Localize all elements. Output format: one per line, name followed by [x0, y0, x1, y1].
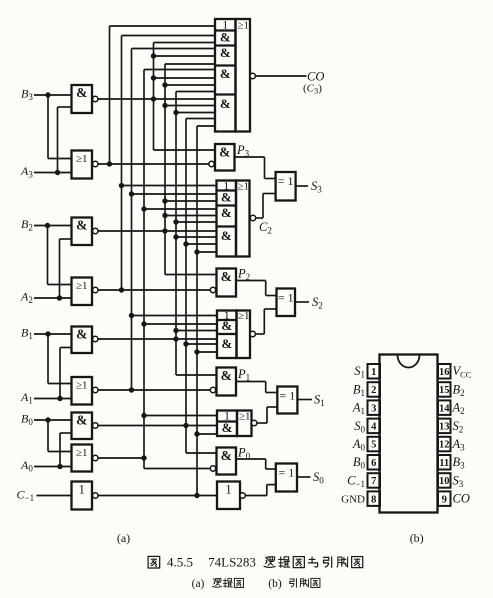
wire P2 output to XOR [236, 281, 277, 296]
svg-text:13: 13 [439, 422, 450, 433]
wire output S0 [297, 476, 311, 478]
svg-text:≥1: ≥1 [237, 20, 249, 32]
NAND gate P2 [210, 269, 236, 297]
pin 6 box [368, 455, 381, 470]
svg-text:3: 3 [371, 403, 376, 414]
caption line 2: (a) 逻辑图 (b) 引脚图 [192, 578, 320, 590]
wire B-input to NOR + junction [45, 331, 71, 383]
wire B2-NAND output (G2') to AOI2 [98, 230, 217, 232]
svg-text:(b): (b) [268, 578, 282, 590]
svg-text:GND: GND [341, 494, 365, 506]
NAND gate (B0·A0)' [72, 413, 99, 440]
svg-text:CO: CO [307, 70, 324, 84]
pin 10 box [438, 473, 451, 488]
input A2 wire [34, 297, 72, 299]
wire output S3 [296, 185, 308, 187]
NAND gate (B3·A3)' [72, 85, 99, 113]
svg-text:≥1: ≥1 [76, 280, 88, 292]
wire C-1 inverter output to second stage [98, 495, 217, 497]
XOR gate S3 [276, 172, 296, 201]
wire A-input to NAND + junction [55, 107, 72, 175]
caption line 1: 图4.5.5 74LS283 逻辑图与引脚图 [148, 555, 363, 570]
wire A-input to NAND + junction [57, 433, 71, 469]
wire inverter out to XOR S0 [245, 485, 275, 496]
svg-text:= 1: = 1 [278, 174, 294, 188]
XOR gate S2 [277, 289, 296, 317]
svg-text:&: & [76, 85, 87, 100]
input A1 wire [34, 398, 72, 400]
wire B1-NAND output (G1') to AOI3 [98, 338, 217, 340]
NOR gate (A1+B1)' [72, 377, 99, 405]
input B0 wire [34, 419, 72, 421]
svg-text:(a): (a) [192, 578, 205, 590]
svg-text:&: & [219, 145, 230, 160]
pin 1 box [368, 364, 381, 379]
svg-text:&: & [221, 368, 232, 383]
input B2 wire [34, 225, 72, 227]
NAND gate (B2·A2)' [72, 218, 99, 246]
svg-text:= 1: = 1 [279, 389, 295, 403]
pin 14 box [438, 400, 451, 415]
svg-text:9: 9 [442, 494, 447, 505]
pin 8 box [368, 491, 381, 506]
svg-text:&: & [221, 318, 232, 333]
wire C1 node to XOR S2 [256, 309, 277, 334]
svg-text:&: & [221, 190, 232, 205]
svg-text:4: 4 [371, 422, 377, 433]
svg-text:&: & [221, 448, 232, 463]
AOI gate U-C2 (4-term) [217, 179, 256, 257]
pin 5 box [368, 437, 381, 452]
IC body 74LS283 [380, 355, 438, 513]
input C-1 wire [37, 495, 72, 497]
AOI gate U-CO (5-term) [215, 18, 255, 132]
wire B-input to NOR + junction [45, 417, 71, 451]
svg-text:&: & [220, 30, 231, 45]
svg-text:≥1: ≥1 [76, 380, 88, 392]
NOR gate (A2+B2)' [72, 278, 99, 306]
wire A-input to NAND + junction [57, 239, 72, 301]
svg-text:16: 16 [439, 367, 450, 378]
inverter C-1 [72, 482, 99, 510]
net NOR0 (vertical bus V4) [141, 70, 217, 469]
svg-text:≥1: ≥1 [76, 153, 88, 165]
wire A1-NOR output (NOR1) to P1 [98, 389, 211, 391]
wire CO output [255, 75, 306, 77]
net G0' (vertical bus V8) [183, 119, 217, 454]
svg-text:≥1: ≥1 [238, 310, 250, 322]
wire output S2 [295, 301, 309, 303]
svg-text:8: 8 [371, 494, 376, 505]
wire B-input to NOR + junction [45, 92, 71, 158]
svg-text:≥1: ≥1 [239, 411, 251, 423]
pin 9 box [438, 491, 451, 506]
pin 11 box [438, 455, 451, 470]
svg-text:≥1: ≥1 [237, 181, 249, 193]
svg-text:&: & [221, 205, 232, 220]
wire output S1 [297, 399, 312, 401]
svg-text:10: 10 [439, 476, 450, 487]
AOI gate U-C1 (3-term) [217, 308, 255, 358]
input B1 wire [34, 333, 72, 335]
wire B0-NAND output (G0') to AOI4 [98, 425, 217, 427]
svg-text:≥1: ≥1 [76, 447, 88, 459]
net NOR2 (vertical bus V2) [119, 36, 217, 293]
svg-text:&: & [222, 420, 233, 435]
svg-text:&: & [76, 327, 87, 342]
XOR gate S1 [277, 387, 297, 414]
wire A-input to NAND + junction [57, 348, 71, 402]
pin 13 box [438, 419, 451, 434]
pin 4 box [368, 419, 381, 434]
svg-text:&: & [221, 269, 232, 284]
svg-text:6: 6 [371, 458, 376, 469]
svg-text:&: & [220, 45, 231, 60]
svg-text:11: 11 [439, 458, 449, 469]
wire P1 output to XOR [236, 382, 277, 393]
net G2' (vertical bus V6) [162, 64, 216, 275]
net C-1' (vertical bus V9) [194, 126, 217, 498]
NAND gate P1 [210, 368, 236, 396]
pin 16 box [438, 364, 451, 379]
svg-text:2: 2 [371, 385, 376, 396]
wire A2-NOR output (NOR2) to P2 [98, 289, 211, 291]
svg-text:5: 5 [371, 440, 376, 451]
pin 12 box [438, 437, 451, 452]
pin 7 box [368, 473, 381, 488]
svg-text:15: 15 [439, 385, 450, 396]
svg-text:4.5.5: 4.5.5 [167, 555, 193, 570]
svg-text:= 1: = 1 [278, 291, 294, 305]
wire B3-NAND output (G3') to AOI1 [98, 98, 216, 100]
net G1' (vertical bus V7) [173, 92, 217, 376]
XOR gate S0 [276, 464, 297, 492]
pin 3 box [368, 400, 381, 415]
NAND gate (B1·A1)' [72, 327, 99, 354]
wire B-input to NOR + junction [45, 223, 72, 285]
pin 2 box [368, 382, 381, 397]
svg-text:(a): (a) [117, 531, 130, 545]
wire A0-NOR output (NOR0) to V4 [98, 457, 144, 459]
NAND gate P0 [210, 448, 236, 475]
wire C0 node to XOR S1 [257, 407, 277, 423]
NAND gate P3 [209, 144, 235, 171]
svg-text:1: 1 [225, 483, 231, 497]
svg-text:12: 12 [439, 440, 450, 451]
input A0 wire [34, 466, 72, 468]
wire P3 output to XOR [235, 157, 276, 179]
input B3 wire [34, 94, 72, 96]
pin 15 box [438, 382, 451, 397]
svg-text:7: 7 [371, 476, 376, 487]
svg-text:(C3): (C3) [303, 83, 322, 96]
AOI gate U-C0 (2-term) [217, 409, 257, 437]
net G3' (vertical bus V5) [151, 43, 215, 151]
svg-text:&: & [220, 66, 231, 81]
net NOR3 (vertical bus V1) [107, 26, 215, 167]
input A3 wire [34, 172, 72, 174]
svg-text:CO: CO [453, 492, 470, 506]
svg-text:14: 14 [439, 403, 450, 414]
wire A3-NOR output (NOR3) to P3 [98, 163, 210, 165]
svg-text:&: & [76, 413, 87, 428]
svg-text:1: 1 [371, 367, 376, 378]
svg-text:(b): (b) [410, 531, 424, 545]
svg-text:= 1: = 1 [279, 466, 295, 480]
svg-text:1: 1 [79, 483, 85, 497]
svg-text:&: & [220, 96, 231, 111]
svg-text:&: & [221, 336, 232, 351]
inverter U-B (C-1 second stage) [217, 482, 245, 510]
svg-text:&: & [76, 218, 87, 233]
net NOR1 (vertical bus V3) [129, 49, 217, 393]
svg-text:&: & [221, 228, 232, 243]
NOR gate (A3+B3)' [72, 151, 99, 179]
svg-text:74LS283: 74LS283 [208, 555, 256, 570]
NOR gate (A0+B0)' [72, 445, 99, 472]
wire C2 node to XOR S3 [256, 194, 276, 219]
wire P0 output to XOR [236, 459, 276, 469]
